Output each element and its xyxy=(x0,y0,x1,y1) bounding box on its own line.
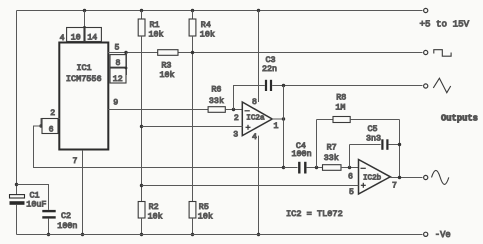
svg-text:6: 6 xyxy=(49,126,54,135)
wire pin9 of IC1 to R6 xyxy=(108,109,208,111)
svg-text:2: 2 xyxy=(234,114,239,123)
wire R2 bottom to -Ve rail xyxy=(141,218,143,235)
sine wave symbol xyxy=(432,170,449,184)
node junction boxes 8/12 xyxy=(125,67,128,70)
wire pins 2/6 down to feedback line xyxy=(34,126,284,168)
svg-text:12: 12 xyxy=(113,75,123,84)
wire IC1 pin7 to -Ve rail xyxy=(82,150,84,235)
svg-text:33k: 33k xyxy=(209,96,224,106)
pin box 8 xyxy=(110,55,126,68)
svg-text:R4: R4 xyxy=(201,20,211,30)
wire triangle-wave line C3 to output terminal xyxy=(272,85,422,87)
svg-text:IC2 = TL072: IC2 = TL072 xyxy=(286,209,343,219)
svg-text:+5 to 15V: +5 to 15V xyxy=(420,19,470,30)
node junction C4/R7 to R8 branch xyxy=(315,166,318,169)
svg-text:100n: 100n xyxy=(292,149,312,159)
svg-text:R6: R6 xyxy=(211,85,221,95)
svg-text:Outputs: Outputs xyxy=(441,114,478,124)
wire R1 bottom down through to R2 xyxy=(141,36,143,202)
wire R5 bottom to -Ve rail xyxy=(192,218,194,235)
svg-text:4: 4 xyxy=(60,34,65,43)
wire C5 left lead xyxy=(350,144,381,146)
wire IC2a output pin1 xyxy=(272,118,283,120)
svg-text:R7: R7 xyxy=(327,143,337,153)
svg-text:IC1: IC1 xyxy=(77,63,92,73)
node junction top rail to IC1 pins 10/14 xyxy=(83,9,86,12)
svg-text:9: 9 xyxy=(113,99,118,108)
resistor R6 body xyxy=(208,107,225,113)
svg-text:8: 8 xyxy=(116,59,121,68)
wire IC2a output vertical to triangle line and C4 line xyxy=(283,86,285,168)
node junction pins 10/14 boxes top xyxy=(83,26,86,29)
wire +V top rail xyxy=(17,10,423,12)
wire IC2b output to sine terminal xyxy=(390,177,422,179)
wire C5 branch vertical xyxy=(349,145,351,168)
wire R8/C5 feedback vertical to IC2b output xyxy=(399,120,401,178)
pin box 14 xyxy=(85,28,101,42)
wire IC2a pin3 bias line xyxy=(142,126,243,128)
terminal square wave output circle xyxy=(424,50,428,54)
pin box 6 xyxy=(42,119,58,134)
node junction top rail to IC2a pin8 xyxy=(257,9,260,12)
wire -Ve bottom rail xyxy=(17,234,423,236)
op-amp IC2b plus sign xyxy=(361,184,366,186)
svg-text:C2: C2 xyxy=(61,211,71,221)
svg-text:3: 3 xyxy=(233,131,238,140)
node junction R6 output to C3 branch xyxy=(232,108,235,111)
svg-text:2: 2 xyxy=(50,109,55,118)
capacitor C4 plates xyxy=(298,162,300,174)
wire IC2b pin5 bias line xyxy=(142,185,359,187)
node junction IC2b output feedback xyxy=(398,176,401,179)
svg-text:R5: R5 xyxy=(199,202,209,212)
svg-text:7: 7 xyxy=(392,182,397,191)
svg-text:1: 1 xyxy=(274,122,279,131)
wire left rail vertical xyxy=(16,11,18,196)
node junction R1/R2 to IC2a pin3 line xyxy=(140,125,143,128)
node junction pins 2/6 of IC1 xyxy=(39,124,42,127)
svg-text:5: 5 xyxy=(349,188,354,197)
svg-text:-Ve: -Ve xyxy=(435,230,451,240)
capacitor C1 electrolytic plates xyxy=(10,195,25,198)
op-amp IC2b minus sign xyxy=(361,167,366,169)
svg-text:22n: 22n xyxy=(262,64,277,74)
resistor R4 vertical wire xyxy=(192,11,194,20)
resistor R2 body xyxy=(138,202,145,219)
svg-text:6: 6 xyxy=(348,173,353,182)
terminal triangle wave output circle xyxy=(424,84,428,88)
resistor R1 body xyxy=(138,19,145,36)
wire C2 bottom to -Ve rail xyxy=(48,219,50,235)
svg-text:IC2a: IC2a xyxy=(246,114,265,122)
node junction IC2a pin4 to -Ve rail xyxy=(257,233,260,236)
node junction R5 to -Ve rail xyxy=(191,233,194,236)
node junction top rail to R4 xyxy=(191,9,194,12)
node junction left rail to C2 branch xyxy=(15,183,18,186)
svg-text:5: 5 xyxy=(115,43,120,52)
wire pin2 of IC1 xyxy=(41,119,60,127)
svg-text:10k: 10k xyxy=(148,212,163,222)
resistor R8 body xyxy=(333,117,350,123)
capacitor C5 plates xyxy=(381,139,383,150)
node junction IC1 pin7 to -Ve rail xyxy=(81,233,84,236)
node junction C2 to -Ve rail xyxy=(47,233,50,236)
svg-text:1M: 1M xyxy=(335,103,345,113)
wire C1 bottom to -Ve rail xyxy=(16,205,18,235)
node junction C5 to feedback vertical xyxy=(398,143,401,146)
svg-text:10k: 10k xyxy=(160,70,175,80)
svg-text:3n3: 3n3 xyxy=(366,133,381,143)
terminal +V output circle xyxy=(424,8,428,12)
wire pin5 node down to boxes 8 and 12 xyxy=(126,53,128,76)
resistor R7 body xyxy=(323,165,342,171)
wire IC1 pins 10/14 to +V rail xyxy=(84,11,86,28)
svg-text:33k: 33k xyxy=(324,153,339,163)
node junction R4/R5 to square-wave line xyxy=(191,51,194,54)
svg-text:4: 4 xyxy=(252,133,257,142)
wire R8 branch vertical xyxy=(316,120,318,168)
svg-text:R8: R8 xyxy=(336,93,346,103)
wire R6 to IC2a pin2 xyxy=(225,109,243,111)
wire R8 right lead to output vertical xyxy=(350,119,399,121)
node junction R2 to -Ve rail xyxy=(140,233,143,236)
svg-text:8: 8 xyxy=(252,98,257,107)
wire feedback line to C4 xyxy=(284,167,298,169)
svg-text:14: 14 xyxy=(87,34,97,43)
wire IC2a pin8 to +V rail xyxy=(258,11,260,103)
IC1 ICM7556 body xyxy=(59,43,108,150)
wire square-wave line pin5 of IC1 to output terminal xyxy=(108,52,423,54)
svg-text:7: 7 xyxy=(73,157,78,166)
svg-text:10k: 10k xyxy=(149,29,164,39)
node junction pin5 to pin boxes 8/12 xyxy=(124,51,127,54)
node junction R7/pin6 to C5 branch xyxy=(348,166,351,169)
resistor R5 body xyxy=(189,202,196,219)
wire C5 right lead to output vertical xyxy=(389,144,400,146)
wire C2 branch from left rail xyxy=(17,185,49,210)
capacitor C2 plates xyxy=(42,210,55,212)
svg-text:10uF: 10uF xyxy=(26,200,46,210)
resistor R1 vertical wire xyxy=(141,11,143,20)
triangle wave symbol xyxy=(433,78,450,93)
wire R8 left lead xyxy=(317,119,334,121)
svg-text:10k: 10k xyxy=(200,29,215,39)
op-amp IC2a triangle xyxy=(242,102,272,136)
wire IC2a pin4 to -Ve rail xyxy=(258,136,260,235)
node junction triangle line to IC2a output xyxy=(282,84,285,87)
node junction top rail to R1 xyxy=(140,9,143,12)
svg-text:R2: R2 xyxy=(149,202,159,212)
square wave symbol xyxy=(434,50,451,57)
resistor R4 body xyxy=(189,19,196,36)
terminal -Ve circle xyxy=(424,232,428,236)
svg-text:10k: 10k xyxy=(198,212,213,222)
capacitor C3 plates xyxy=(265,80,267,91)
terminal sine wave output circle xyxy=(424,175,428,179)
op-amp IC2a plus sign xyxy=(246,126,251,128)
svg-text:ICM7556: ICM7556 xyxy=(66,74,102,84)
op-amp IC2a minus sign xyxy=(245,110,250,112)
node junction R1/R2 to IC2b pin5 line xyxy=(140,184,143,187)
op-amp IC2b triangle xyxy=(359,160,391,195)
wire R7 to IC2b pin6 xyxy=(341,167,359,169)
svg-text:R1: R1 xyxy=(150,20,160,30)
wire C3 branch up from pin2 node xyxy=(234,86,265,110)
node junction IC2a output pin1 xyxy=(282,117,285,120)
pin box 12 xyxy=(110,68,126,83)
resistor R3 body xyxy=(158,50,178,56)
wire R4 bottom down through to R5 xyxy=(192,36,194,202)
wire C4 to R7 xyxy=(307,167,323,169)
svg-text:10: 10 xyxy=(71,34,81,43)
svg-text:100n: 100n xyxy=(57,221,77,231)
pin box 10 xyxy=(67,28,84,42)
svg-text:IC2b: IC2b xyxy=(363,174,382,182)
node junction feedback line to IC2a output xyxy=(282,166,285,169)
